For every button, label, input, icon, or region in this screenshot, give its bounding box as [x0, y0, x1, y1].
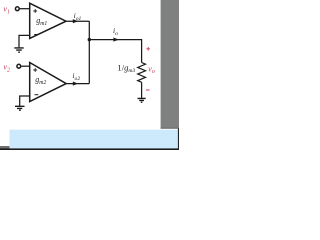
- left gray stripe: [0, 146, 10, 149]
- right dark edge: [178, 128, 179, 150]
- wire v2 to U2 + input: [21, 65, 30, 67]
- ground G3: [138, 98, 146, 102]
- page background: [0, 0, 179, 150]
- wire io to resistor: [89, 40, 141, 63]
- scrollbar bottom shadow: [161, 128, 178, 129]
- wire U1 output io1: [66, 20, 89, 22]
- U2 plus input sign: [33, 68, 37, 72]
- wire bus joining outputs: [88, 21, 90, 83]
- terminal v1 circle: [15, 7, 19, 11]
- junction node dot: [88, 38, 91, 41]
- bottom black bar: [0, 148, 179, 150]
- op-amp U2 (gm2) triangle: [30, 63, 66, 102]
- U1 minus input sign: [34, 34, 38, 36]
- ground G1: [14, 48, 23, 52]
- terminal v2 circle: [17, 64, 21, 68]
- arrow io1: [73, 19, 78, 23]
- arrow io2: [73, 82, 78, 86]
- arrow io: [113, 38, 119, 42]
- U1 plus input sign: [33, 9, 37, 13]
- scrollbar gray bar: [161, 0, 179, 129]
- wire U2 output io2: [66, 83, 89, 85]
- label - (vo polarity): [146, 89, 150, 91]
- wire resistor to ground: [141, 82, 143, 98]
- label + (vo polarity): [146, 47, 150, 51]
- resistor R 1/gm3 zigzag: [138, 63, 146, 83]
- wire U1 - input to ground: [19, 35, 30, 47]
- op-amp U1 (gm1) triangle: [30, 3, 66, 38]
- U2 minus input sign: [35, 94, 39, 96]
- wire v1 to U1 + input: [20, 8, 30, 10]
- ground G2: [15, 106, 25, 110]
- wire U2 - input to ground: [20, 96, 30, 106]
- blue highlight band: [10, 130, 180, 149]
